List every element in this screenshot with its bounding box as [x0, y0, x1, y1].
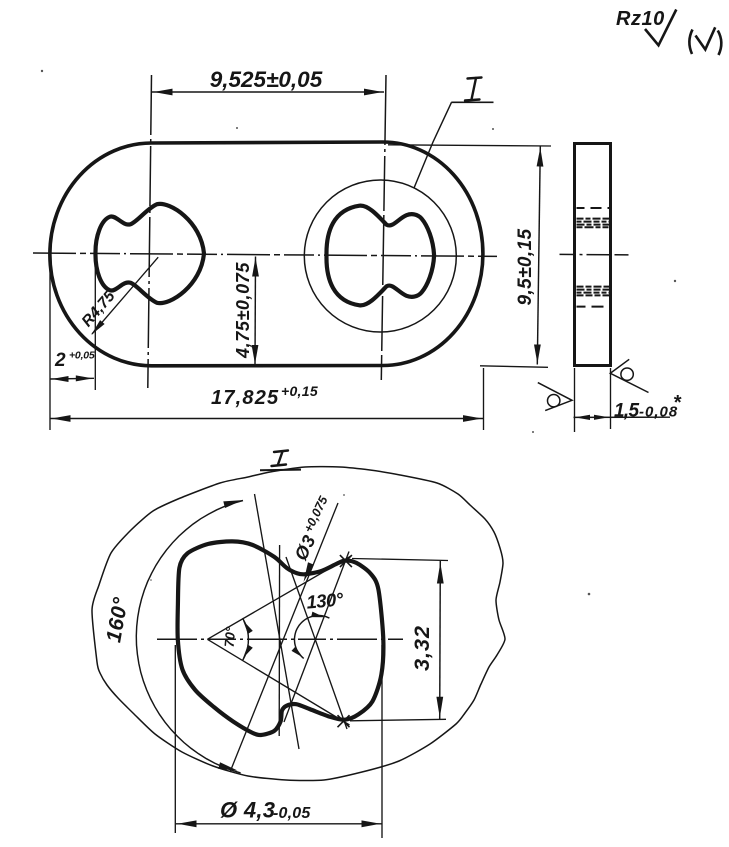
- svg-text:-0,05: -0,05: [273, 805, 311, 822]
- svg-text:3,32: 3,32: [410, 625, 434, 671]
- construction line L1: [255, 494, 300, 749]
- dimension Ø4,3-0,05: [174, 645, 176, 833]
- svg-text:2: 2: [54, 350, 66, 371]
- 160 deg arc: [136, 501, 243, 773]
- svg-text:4,75±0,075: 4,75±0,075: [233, 262, 253, 359]
- svg-text:130°: 130°: [305, 588, 344, 612]
- svg-text:Ø 4,3: Ø 4,3: [220, 798, 275, 823]
- hidden dashed lines (holes) top: [577, 208, 610, 307]
- dimension 1,5-0,08*: [574, 368, 576, 432]
- 70 deg arc: [243, 618, 249, 660]
- right hole (shaped opening): [326, 206, 434, 306]
- tangent x-mark bottom: [338, 715, 350, 727]
- detail hole shape (enlarged): [178, 541, 384, 735]
- svg-text:Rz10: Rz10: [616, 8, 665, 30]
- plate outline (plan view, obround): [50, 142, 483, 366]
- svg-text:9,525±0,05: 9,525±0,05: [210, 67, 323, 92]
- dimension 2 +0,05: [94, 266, 96, 390]
- dimension 4,75±0,075: [254, 257, 257, 366]
- rays through right center (130 deg): [284, 552, 349, 723]
- (check) symbol: [689, 30, 692, 55]
- dimension 3,32: [352, 559, 448, 561]
- paper specks (decorative): [41, 70, 676, 596]
- svg-text:*: *: [673, 392, 682, 414]
- svg-text:1,5: 1,5: [614, 401, 639, 422]
- right hole vertical centerline: [381, 75, 386, 380]
- 130 deg arc: [295, 616, 330, 659]
- label Ø3 +0,075: [289, 493, 338, 563]
- side view centerline: [560, 253, 629, 256]
- svg-text:70°: 70°: [222, 626, 239, 648]
- detail view torn boundary blob: [92, 467, 505, 781]
- horizontal centerline plan: [33, 253, 497, 256]
- svg-text:+0,05: +0,05: [69, 350, 95, 362]
- dimension 9,5±0,15: [388, 145, 551, 146]
- left hole vertical centerline: [148, 75, 152, 388]
- detail horizontal centerline: [157, 638, 403, 640]
- dimension 17,825 +0,15: [49, 258, 51, 430]
- construction line / leader for diameter 3: [230, 503, 338, 772]
- side view outline: [575, 144, 611, 366]
- leader to detail label I: [414, 102, 452, 188]
- rays from left center (70 deg): [207, 556, 351, 639]
- tangent x-mark top: [340, 555, 352, 567]
- surface finish symbol right (circle+check): [610, 359, 648, 392]
- left hole (shaped opening): [95, 204, 204, 303]
- svg-text:+0,15: +0,15: [281, 383, 318, 399]
- detail circle I around right hole: [304, 180, 456, 332]
- radius leader R4,75: [92, 257, 158, 334]
- svg-text:17,825: 17,825: [211, 387, 279, 409]
- surface finish symbol left (circle+check): [538, 383, 572, 411]
- label I (plan): [465, 78, 482, 101]
- dimension 9,525±0,05: [152, 91, 384, 93]
- svg-text:9,5±0,15: 9,5±0,15: [515, 228, 536, 305]
- detail vertical construction line: [278, 545, 280, 736]
- label I (detail view): [272, 451, 289, 467]
